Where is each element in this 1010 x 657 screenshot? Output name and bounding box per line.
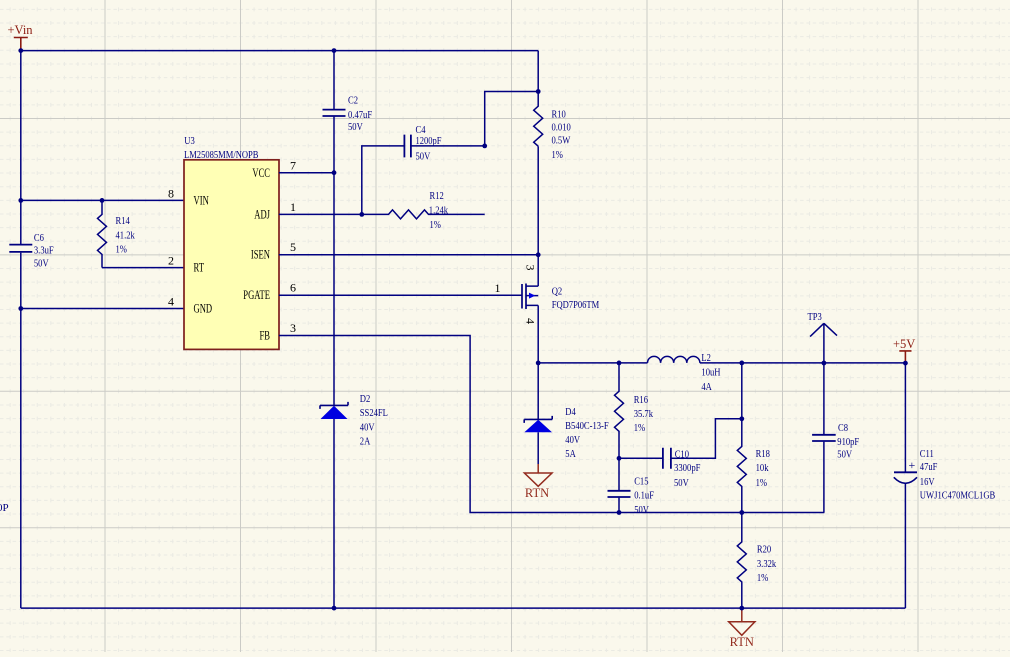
svg-text:D4: D4 (565, 406, 576, 418)
svg-text:1%: 1% (430, 219, 441, 231)
diode D4 schottky (524, 363, 552, 464)
svg-text:2A: 2A (360, 436, 371, 448)
svg-text:ADJ: ADJ (254, 207, 270, 222)
svg-text:ISEN: ISEN (251, 247, 271, 262)
wire GND pin 4 (21, 308, 184, 310)
svg-text:FB: FB (260, 328, 271, 343)
wire VIN pin 8 (21, 199, 184, 201)
svg-text:35.7k: 35.7k (634, 408, 654, 420)
svg-text:VIN: VIN (194, 193, 210, 208)
R10 value labels (552, 109, 572, 162)
svg-text:R12: R12 (430, 190, 444, 202)
wire C2 to VCC and down to D2 (333, 117, 335, 405)
wire VCC pin 7 (279, 172, 334, 174)
resistor R20 (737, 513, 746, 609)
svg-text:1200pF: 1200pF (416, 135, 442, 147)
ground RTN bottom (729, 608, 755, 649)
svg-text:4: 4 (168, 295, 174, 309)
svg-text:4: 4 (524, 318, 538, 324)
svg-text:Q2: Q2 (552, 286, 563, 298)
wire left rail lower (20, 253, 22, 608)
svg-text:50V: 50V (416, 150, 431, 162)
svg-text:4A: 4A (701, 381, 712, 393)
wire C8 to FB rail (823, 442, 825, 513)
svg-text:50V: 50V (674, 477, 689, 489)
svg-text:+: + (909, 458, 916, 472)
svg-text:8: 8 (168, 187, 174, 201)
capacitor C8 (812, 435, 836, 441)
svg-text:+5V: +5V (893, 337, 915, 351)
svg-text:0.010: 0.010 (552, 122, 572, 134)
svg-text:R20: R20 (757, 543, 772, 555)
D2 value labels (360, 393, 388, 448)
svg-text:RTN: RTN (525, 486, 549, 500)
svg-text:0P: 0P (0, 502, 9, 514)
ground RTN under D4 (524, 464, 552, 500)
wire TP3 node to C8 (823, 363, 825, 434)
svg-text:1%: 1% (552, 149, 563, 161)
svg-text:R14: R14 (116, 215, 131, 227)
resistor R12 (362, 210, 485, 219)
resistor R16 (615, 363, 624, 458)
svg-text:10uH: 10uH (701, 367, 720, 379)
svg-text:D2: D2 (360, 393, 371, 405)
wire ADJ pin 1 (279, 213, 362, 215)
U3 pin names (194, 165, 271, 343)
svg-text:R16: R16 (634, 394, 649, 406)
wire C2 branch upper (333, 51, 335, 110)
wire FB pin 3 net (279, 336, 825, 513)
wire L2 to +5V (700, 362, 906, 364)
wire C15 to FB rail (618, 498, 620, 513)
svg-text:RT: RT (194, 260, 205, 275)
svg-text:SS24FL: SS24FL (360, 407, 388, 419)
svg-text:VCC: VCC (252, 165, 270, 180)
svg-text:40V: 40V (565, 434, 580, 446)
wire R10 to Q2 drain (537, 146, 539, 286)
svg-text:50V: 50V (348, 121, 363, 133)
resistor R18 (737, 363, 746, 513)
svg-text:C2: C2 (348, 94, 358, 106)
diode D2 schottky (320, 402, 348, 419)
D4 value labels (565, 406, 608, 460)
C11 value labels (920, 448, 996, 502)
C2 value labels (348, 94, 372, 133)
capacitor C2 (323, 110, 346, 116)
svg-text:910pF: 910pF (837, 436, 859, 448)
svg-text:UWJ1C470MCL1GB: UWJ1C470MCL1GB (920, 490, 996, 502)
svg-text:C8: C8 (838, 422, 848, 434)
svg-text:TP3: TP3 (808, 311, 823, 323)
svg-text:C15: C15 (634, 476, 649, 488)
svg-text:50V: 50V (634, 504, 649, 516)
R12 value labels (429, 190, 449, 231)
wire bottom rail (21, 607, 906, 609)
svg-text:3: 3 (524, 265, 538, 271)
svg-text:50V: 50V (837, 448, 852, 460)
svg-text:1: 1 (290, 200, 296, 214)
svg-text:5: 5 (290, 240, 296, 254)
wire +5V node to C11 (904, 363, 906, 471)
svg-text:1%: 1% (756, 477, 767, 489)
capacitor C15 (608, 491, 631, 497)
svg-text:LM25085MM/NOPB: LM25085MM/NOPB (184, 149, 259, 161)
C10 value labels (674, 449, 701, 490)
svg-text:16V: 16V (920, 476, 935, 488)
C8 value labels (837, 422, 859, 460)
wire left rail upper (20, 51, 22, 245)
svg-text:B540C-13-F: B540C-13-F (565, 420, 608, 432)
svg-text:+Vin: +Vin (8, 23, 34, 37)
svg-text:GND: GND (194, 301, 213, 316)
resistor R14 (98, 200, 107, 267)
svg-text:3.32k: 3.32k (757, 558, 777, 570)
wire top rail (21, 50, 538, 52)
R16 value labels (634, 394, 654, 434)
svg-text:PGATE: PGATE (243, 287, 270, 302)
U3 pin numbers (168, 158, 296, 335)
C6 value labels (34, 232, 54, 269)
transistor Q2 PMOS (522, 284, 538, 310)
svg-text:40V: 40V (360, 422, 375, 434)
wire C4 left branch (362, 146, 404, 215)
svg-text:41.2k: 41.2k (116, 229, 136, 241)
svg-text:6: 6 (290, 280, 296, 294)
svg-text:C11: C11 (920, 448, 934, 460)
svg-text:1.24k: 1.24k (429, 204, 449, 216)
svg-text:1%: 1% (757, 572, 768, 584)
svg-text:3300pF: 3300pF (674, 462, 701, 474)
wire RT pin 2 (102, 267, 184, 269)
wire C10 right to R18 tap (671, 419, 742, 459)
svg-text:R18: R18 (756, 448, 771, 460)
test point TP3 (808, 311, 838, 363)
svg-text:1: 1 (495, 281, 501, 295)
svg-text:3.3uF: 3.3uF (34, 245, 54, 257)
capacitor C4 (404, 135, 411, 158)
wire C11 to bottom rail (904, 484, 906, 609)
capacitor C11 polarized (894, 458, 917, 483)
svg-text:2: 2 (168, 254, 174, 268)
Q2 labels (552, 286, 600, 312)
svg-text:R10: R10 (552, 109, 567, 121)
C15 value labels (634, 476, 654, 517)
svg-text:5A: 5A (565, 448, 576, 460)
wire ISEN pin 5 (279, 254, 538, 256)
C4 value labels (416, 124, 442, 162)
inductor L2 (648, 356, 700, 363)
power port +Vin (8, 23, 34, 51)
svg-text:1%: 1% (634, 422, 645, 434)
wire Q2 source down to switch node (537, 305, 539, 363)
svg-text:FQD7P06TM: FQD7P06TM (552, 299, 600, 311)
svg-text:U3: U3 (184, 135, 195, 147)
wire D2 to bottom rail (333, 419, 335, 608)
capacitor C10 (663, 448, 671, 469)
capacitor C6 (9, 245, 32, 252)
wire PGATE pin 6 to gate (279, 294, 522, 296)
R18 value labels (756, 448, 771, 489)
svg-text:C6: C6 (34, 232, 44, 244)
svg-text:0.47uF: 0.47uF (348, 109, 372, 121)
R14 value labels (116, 215, 136, 256)
svg-text:10k: 10k (756, 462, 769, 474)
svg-text:0.5W: 0.5W (552, 135, 571, 147)
R20 value labels (757, 543, 777, 584)
svg-text:1%: 1% (116, 244, 127, 256)
resistor R10 (534, 51, 543, 147)
wire R16 to C15 (618, 458, 620, 490)
power port +5V (893, 337, 915, 363)
svg-text:0.1uF: 0.1uF (634, 490, 654, 502)
wire switch node to L2 (538, 362, 647, 364)
L2 value labels (701, 352, 720, 393)
svg-text:7: 7 (290, 158, 296, 172)
svg-text:47uF: 47uF (920, 461, 938, 473)
wire C4 right branch (411, 92, 538, 146)
svg-text:3: 3 (290, 321, 296, 335)
IC U3 LM25085MM/NOPB body (184, 135, 279, 349)
svg-text:RTN: RTN (730, 635, 754, 649)
svg-text:50V: 50V (34, 258, 49, 270)
wire C10 left (619, 457, 663, 459)
